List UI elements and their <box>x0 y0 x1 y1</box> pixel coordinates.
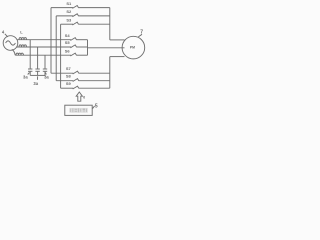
svg-text:S1: S1 <box>66 1 72 6</box>
svg-text:L: L <box>20 29 23 34</box>
svg-text:PM: PM <box>130 46 135 50</box>
svg-text:S3: S3 <box>66 17 72 22</box>
svg-text:6: 6 <box>83 95 85 99</box>
svg-text:4: 4 <box>2 29 5 34</box>
svg-text:S6: S6 <box>65 48 71 53</box>
svg-text:5: 5 <box>95 103 98 109</box>
svg-text:S9: S9 <box>66 81 72 86</box>
svg-text:S5: S5 <box>65 40 71 45</box>
svg-text:3a: 3a <box>44 75 49 80</box>
svg-text:7: 7 <box>140 30 143 36</box>
svg-text:S8: S8 <box>66 74 72 79</box>
svg-text:S2: S2 <box>66 9 72 14</box>
svg-text:S7: S7 <box>66 66 72 71</box>
svg-text:3a: 3a <box>33 81 38 86</box>
svg-text:S4: S4 <box>65 33 71 38</box>
svg-text:3a: 3a <box>23 75 28 80</box>
